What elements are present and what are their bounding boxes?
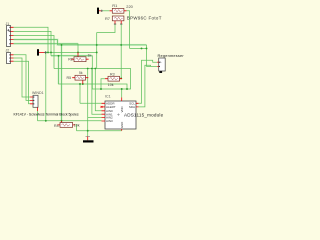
wire J2 pin1 <box>14 55 31 101</box>
wire vertical x45.8 <box>45 52 47 120</box>
terminal TP1 <box>97 8 99 14</box>
wire TP1 to R1 <box>102 10 110 12</box>
svg-text:+: + <box>160 61 162 65</box>
wire ground horizontal <box>77 130 122 132</box>
Regenmesser <box>157 53 184 73</box>
terminal TP2 <box>37 49 39 55</box>
wire TP2 horizontal y52.4 <box>44 51 96 53</box>
wire J1 pin2 <box>14 31 52 55</box>
svg-text:R7: R7 <box>105 16 110 21</box>
ground <box>83 136 94 142</box>
wire halo J1 pin3 to main horizontal <box>14 40 147 45</box>
svg-text:220: 220 <box>126 4 133 9</box>
wire halo vertical x58.5 <box>57 56 59 84</box>
wire R7 left pin down <box>97 24 115 33</box>
wire J1 pin3 <box>14 36 55 69</box>
svg-text:GND: GND <box>120 122 124 128</box>
svg-text:R2: R2 <box>68 58 73 62</box>
wire halo horizontal y55.8 <box>51 55 92 57</box>
svg-text:AIN3: AIN3 <box>106 119 113 123</box>
bendpoint cross TP1 <box>101 10 103 12</box>
wire ground stub <box>87 131 89 137</box>
svg-text:R3: R3 <box>110 72 115 76</box>
wire Regen lower pin net <box>130 45 158 67</box>
svg-text:SDA: SDA <box>129 105 135 109</box>
wire main horizontal y44.9 <box>58 44 147 46</box>
wire AIN0 <box>95 69 101 111</box>
wire ADDR <box>80 102 102 104</box>
svg-text:1k: 1k <box>88 53 92 57</box>
IC ADS1115 module <box>101 95 164 131</box>
svg-text:R1: R1 <box>112 3 117 8</box>
svg-text:R4: R4 <box>54 124 59 128</box>
svg-text:10k: 10k <box>74 123 80 127</box>
resistor R1 <box>110 3 134 13</box>
wire J1 pin5 <box>14 44 79 53</box>
wire vertical x61.5 <box>61 45 63 121</box>
wire ADDR up <box>79 84 81 103</box>
wire vertical x58.5 jog to VDD area <box>59 56 128 89</box>
wire R3 left pin net <box>101 79 105 89</box>
svg-text:WIND1: WIND1 <box>32 91 44 95</box>
wire SDA <box>139 65 151 107</box>
wire SCL <box>139 60 158 103</box>
wire halo vertical x61.5 <box>60 45 62 121</box>
potentiometer R2 <box>68 52 91 61</box>
svg-text:R5: R5 <box>67 76 72 80</box>
bendpoint cross TP2 <box>44 51 46 53</box>
phototransistor R7 BPW96C <box>105 16 162 25</box>
svg-text:BPW96C FotoT: BPW96C FotoT <box>127 16 162 21</box>
wire vertical x96.7 <box>96 33 98 69</box>
wire R4 right pin to ground <box>75 125 76 131</box>
wire R1 right to vertical <box>127 11 130 49</box>
svg-text:Regenmesser: Regenmesser <box>158 53 185 58</box>
connector J1 <box>6 22 14 47</box>
wire AIN2 branch <box>88 117 102 119</box>
terminal block KF141V WIND1 <box>14 91 79 116</box>
svg-text:+: + <box>117 113 120 119</box>
svg-text:J2: J2 <box>6 49 10 53</box>
wire R7 right pin down to R3 <box>120 24 122 79</box>
wire J1 pin1 <box>14 27 49 52</box>
potentiometer R3 <box>105 72 122 86</box>
svg-text:ADS1115_module: ADS1115_module <box>124 112 164 117</box>
wire KF bottom pin down <box>37 111 39 121</box>
junction dots <box>45 44 148 132</box>
wire J2 pin3 <box>14 61 31 104</box>
wire AIN2 / ground vertical <box>87 69 89 131</box>
svg-text:IC1: IC1 <box>105 95 111 99</box>
wire J1 pin4 <box>14 40 131 89</box>
wire AIN1 <box>92 69 102 115</box>
svg-text:KF141V - Screwless Terminal Bl: KF141V - Screwless Terminal Block 5poles <box>14 112 79 116</box>
potentiometer R4 <box>54 121 80 128</box>
potentiometer R5 <box>67 71 89 84</box>
connector J2 <box>6 49 14 64</box>
wire VDD drop <box>121 89 123 98</box>
wire halo J1 pin5 <box>14 43 79 45</box>
wire J2 pin2 <box>14 58 31 97</box>
svg-text:5k: 5k <box>79 71 83 75</box>
wire horizontal y120.8 AIN3 net <box>38 120 102 122</box>
svg-text:10k: 10k <box>108 83 114 87</box>
wire y55.8 to VDD net <box>51 56 127 89</box>
